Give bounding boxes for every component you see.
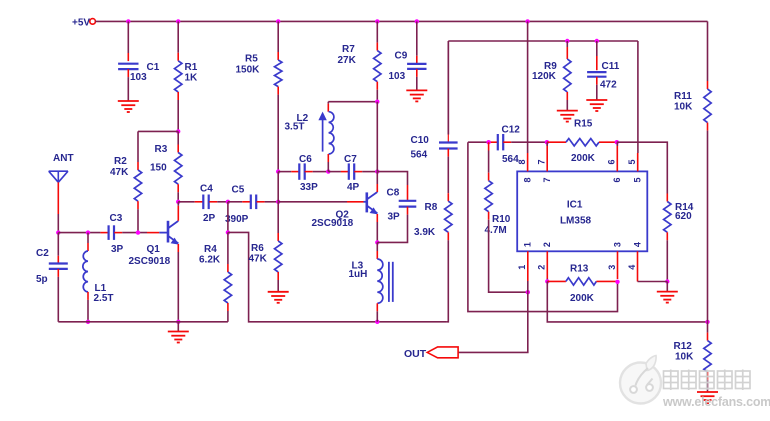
- svg-text:103: 103: [389, 71, 406, 82]
- wire divider node to R12: [707, 322, 709, 333]
- resistor R8: [445, 201, 452, 232]
- pin 2 stub: [546, 251, 548, 278]
- svg-text:620: 620: [675, 211, 692, 222]
- wire R9 to ground: [566, 92, 568, 100]
- svg-text:6: 6: [612, 177, 622, 182]
- svg-text:R11: R11: [674, 91, 692, 102]
- wire R5 to C6 row: [277, 87, 279, 95]
- svg-text:OUT: OUT: [404, 348, 427, 360]
- resistor R1: [175, 61, 182, 92]
- junction node B1 (R1/R2/R3): [176, 129, 180, 133]
- wire L2 bottom lead: [327, 154, 329, 162]
- svg-text:R4: R4: [204, 244, 217, 255]
- junction bias rail at R9: [565, 39, 569, 43]
- wire C7 to Q2 collector node: [354, 171, 362, 173]
- svg-text:3P: 3P: [111, 244, 124, 255]
- svg-text:LM358: LM358: [560, 216, 592, 227]
- junction base row at L1: [86, 230, 90, 234]
- resistor R11: [704, 89, 711, 123]
- wire R11 to divider node: [707, 123, 709, 131]
- wire pin 6 node to R14: [617, 142, 668, 193]
- junction Q2 emitter node: [375, 240, 379, 244]
- ground under R6: [268, 291, 289, 293]
- resistor R9: [564, 59, 571, 92]
- junction pin 2 node: [545, 279, 549, 283]
- junction R10 top: [486, 140, 490, 144]
- svg-text:ANT: ANT: [53, 153, 74, 164]
- junction R4 top: [226, 230, 230, 234]
- resistor R7: [374, 51, 381, 82]
- svg-text:2: 2: [542, 242, 552, 247]
- junction R5/R6 column at collector row: [276, 200, 280, 204]
- capacitor C9: [407, 63, 426, 65]
- capacitor C6: [298, 163, 300, 179]
- svg-text:150K: 150K: [236, 65, 261, 76]
- junction input node: [56, 230, 60, 234]
- wire C1 to ground: [127, 69, 129, 77]
- wire bias rail: [448, 40, 638, 42]
- junction R5 column at C6 row: [276, 169, 280, 173]
- power terminal +5V: [90, 19, 96, 25]
- junction base row at R2: [136, 230, 140, 234]
- wire R6 to ground: [277, 272, 279, 280]
- svg-text:150: 150: [150, 163, 167, 174]
- wire R10 from top node: [488, 142, 490, 150]
- junction bias rail at C11: [595, 39, 599, 43]
- resistor R6: [275, 241, 282, 272]
- svg-text:33P: 33P: [300, 182, 318, 193]
- svg-text:+5V: +5V: [72, 17, 90, 28]
- capacitor C1: [118, 63, 138, 65]
- wire R8 to right rail: [447, 232, 449, 240]
- svg-text:3: 3: [612, 242, 622, 247]
- ground under C11: [586, 99, 607, 101]
- svg-text:103: 103: [130, 72, 147, 83]
- wire R5 column C6 row to collector row: [277, 172, 279, 202]
- svg-text:R13: R13: [570, 264, 589, 275]
- port OUT arrow: [427, 347, 458, 358]
- svg-text:C7: C7: [344, 154, 357, 165]
- resistor R13: [566, 278, 597, 285]
- antenna ANT: [49, 170, 68, 172]
- wire +5V to R1: [177, 21, 179, 52]
- resistor R10: [485, 181, 492, 212]
- svg-text:2SC9018: 2SC9018: [129, 256, 171, 267]
- pin 8 stub: [527, 153, 529, 171]
- wire C10 to R8: [447, 149, 449, 157]
- resistor R3: [175, 153, 182, 185]
- ground under C9: [406, 89, 427, 91]
- wire R15 to pin 6 node: [599, 141, 617, 143]
- svg-text:564: 564: [411, 150, 428, 161]
- wire emitter node to L3: [376, 242, 378, 251]
- svg-text:C6: C6: [299, 154, 312, 165]
- wire bias rail to R9: [566, 41, 568, 47]
- junction top rail at C9: [415, 19, 419, 23]
- svg-text:R3: R3: [155, 144, 168, 155]
- junction top rail at IC pin 8 wire: [525, 19, 529, 23]
- watermark logo circle: [620, 356, 661, 404]
- junction pin 1 node: [526, 290, 530, 294]
- transistor Q2: [364, 201, 367, 203]
- wire pin 7 connection: [546, 142, 548, 146]
- wire +5V to R5: [277, 21, 279, 52]
- junction Q1 collector node: [176, 200, 180, 204]
- svg-text:5p: 5p: [36, 274, 48, 285]
- svg-text:C10: C10: [411, 135, 430, 146]
- wire Q1 emitter to ground rail: [177, 244, 179, 252]
- svg-text:R10: R10: [492, 214, 511, 225]
- wire R10 to pin 1 node: [488, 212, 490, 220]
- svg-text:120K: 120K: [532, 71, 557, 82]
- resistor R4: [227, 232, 229, 264]
- wire input node to C3: [58, 232, 100, 234]
- wire L1 to ground rail: [87, 292, 89, 300]
- svg-text:R12: R12: [674, 341, 693, 352]
- wire node R4 down: [227, 202, 229, 233]
- wire R2 to base row: [137, 201, 139, 209]
- svg-text:472: 472: [600, 80, 617, 91]
- junction R14 ground node: [665, 279, 669, 283]
- capacitor C5: [250, 195, 252, 210]
- svg-text:5: 5: [627, 159, 637, 164]
- junction top rail at R7: [375, 19, 379, 23]
- wire node B1 to R3: [177, 131, 179, 144]
- svg-text:C4: C4: [200, 183, 213, 194]
- svg-text:10K: 10K: [675, 351, 694, 362]
- junction ground rail at Q1 emitter: [176, 320, 180, 324]
- wire C6 row from R5 column: [278, 171, 291, 173]
- op-amp IC1 LM358: [517, 171, 647, 251]
- wire pin 6 connection: [616, 142, 618, 146]
- svg-text:R7: R7: [342, 44, 355, 55]
- svg-text:C2: C2: [36, 248, 49, 259]
- capacitor C7: [348, 163, 350, 179]
- resistor R5: [275, 60, 282, 87]
- svg-text:47K: 47K: [249, 253, 268, 264]
- capacitor C10: [439, 141, 458, 143]
- capacitor C12: [497, 134, 499, 150]
- svg-text:2P: 2P: [203, 213, 216, 224]
- junction pin 3 node: [615, 280, 619, 284]
- junction ground rail at L1: [86, 320, 90, 324]
- wire Q2 emitter: [376, 214, 378, 222]
- wire R12 to ground: [707, 372, 709, 380]
- svg-text:10K: 10K: [674, 101, 693, 112]
- inductor L1: [83, 251, 88, 292]
- wire L3 to right rail: [376, 303, 378, 311]
- svg-text:IC1: IC1: [567, 200, 583, 211]
- wire pin 1 to node: [527, 281, 529, 292]
- wire node R4 to C5: [228, 201, 242, 203]
- pin 6 stub: [616, 144, 618, 171]
- wire input node to C2: [57, 233, 59, 256]
- capacitor C11: [587, 71, 606, 73]
- junction top rail at C1: [126, 19, 130, 23]
- wire Q2 collector: [376, 172, 378, 184]
- junction pin 7 node: [545, 140, 549, 144]
- pin 4 stub: [637, 251, 639, 281]
- wire C6 to L2 bottom: [305, 171, 313, 173]
- svg-text:C8: C8: [387, 188, 400, 199]
- wire pin 2 node to feedback rail: [547, 281, 707, 322]
- resistor R15: [566, 139, 599, 146]
- svg-text:R8: R8: [425, 202, 438, 213]
- wire L2 top: [328, 101, 377, 103]
- svg-text:C5: C5: [232, 185, 245, 196]
- ground under R9: [557, 110, 578, 112]
- svg-text:8: 8: [522, 177, 532, 182]
- capacitor C8: [399, 200, 417, 202]
- wire C9 to ground: [416, 69, 418, 77]
- svg-text:3: 3: [607, 265, 617, 270]
- capacitor C2: [49, 262, 68, 264]
- svg-text:www.elecfans.com: www.elecfans.com: [662, 395, 770, 409]
- wire collector row to Q2 base: [278, 201, 347, 203]
- wire R4 to bottom-left rail: [227, 303, 229, 311]
- ground under R12: [697, 391, 718, 393]
- svg-text:R15: R15: [574, 119, 593, 130]
- pin 7 stub: [546, 144, 548, 171]
- svg-text:C1: C1: [147, 62, 160, 73]
- ground under R14: [666, 282, 668, 292]
- resistor R12: [704, 341, 711, 372]
- wire pin 7 node to R15: [547, 141, 566, 143]
- resistor R14: [664, 202, 671, 233]
- svg-text:2.5T: 2.5T: [94, 293, 114, 304]
- svg-text:4: 4: [632, 242, 642, 247]
- svg-text:R1: R1: [185, 62, 198, 73]
- pin 5 stub: [637, 153, 639, 171]
- svg-text:C11: C11: [602, 61, 620, 72]
- wire C8 to emitter node: [407, 207, 409, 215]
- wire Q2 collector node to C8: [377, 172, 407, 185]
- svg-text:R2: R2: [114, 156, 127, 167]
- svg-text:4P: 4P: [347, 182, 360, 193]
- svg-text:C9: C9: [395, 50, 408, 61]
- svg-text:3.9K: 3.9K: [414, 227, 436, 238]
- junction Q2 collector node: [375, 169, 379, 173]
- wire pin 2 node to R13: [547, 280, 566, 282]
- wire pin 4 to ground node: [638, 281, 668, 283]
- wire pin 2 down: [546, 279, 548, 282]
- wire +5V to C1: [127, 21, 129, 53]
- svg-text:Q1: Q1: [147, 244, 161, 255]
- wire L2 bottom to C7: [328, 171, 341, 173]
- svg-text:6: 6: [607, 159, 617, 164]
- wire pin3 net to C12: [468, 141, 490, 143]
- ground at bottom rail: [177, 322, 179, 332]
- wire +5V to C9: [416, 21, 418, 55]
- wire +5V rail to pin 8: [527, 21, 529, 153]
- wire C4 to node R4: [209, 201, 217, 203]
- watermark chinese text: [664, 370, 751, 391]
- svg-text:3P: 3P: [388, 212, 401, 223]
- svg-text:1K: 1K: [185, 73, 199, 84]
- wire +5V top rail: [95, 20, 707, 22]
- wire Q1 collector node to C4: [178, 201, 195, 203]
- pin 1 stub: [527, 251, 529, 281]
- svg-text:27K: 27K: [338, 55, 357, 66]
- inductor L3: [377, 259, 383, 303]
- wire C11 to ground: [596, 77, 598, 85]
- svg-text:R5: R5: [245, 54, 258, 65]
- junction node R4 top row: [226, 200, 230, 204]
- wire R7 node down to Q2 collector node: [376, 102, 378, 172]
- wire C12 to pin 7 node: [503, 141, 511, 143]
- junction top rail at R1: [176, 19, 180, 23]
- wire C3 to Q1 base: [114, 232, 122, 234]
- svg-text:C3: C3: [110, 213, 123, 224]
- wire R13 to pin 3 node: [596, 280, 617, 282]
- wire R3 to Q1 collector node: [177, 184, 179, 192]
- junction R7/L2 node: [375, 100, 379, 104]
- svg-text:7: 7: [542, 177, 552, 182]
- junction top rail at R5: [276, 19, 280, 23]
- wire bias rail corner to pin 5: [637, 41, 639, 153]
- wire ANT to input node: [57, 182, 59, 214]
- svg-text:C12: C12: [502, 124, 521, 135]
- wire pin 1 node to OUT: [458, 292, 528, 352]
- wire R1 to node B1: [177, 92, 179, 100]
- wire C5 to R5/R6 column: [257, 201, 265, 203]
- svg-text:1: 1: [517, 265, 527, 270]
- junction L2 bottom: [326, 169, 330, 173]
- wire collector row to R6: [277, 202, 279, 233]
- transistor Q1: [159, 232, 168, 234]
- svg-text:4: 4: [627, 265, 637, 270]
- svg-text:2: 2: [537, 265, 547, 270]
- svg-text:2SC9018: 2SC9018: [312, 218, 354, 229]
- capacitor C3: [107, 225, 109, 240]
- svg-text:5: 5: [633, 177, 643, 182]
- svg-text:200K: 200K: [570, 293, 595, 304]
- svg-text:6.2K: 6.2K: [199, 254, 221, 265]
- pin 3 stub: [617, 251, 619, 279]
- wire Q1 collector: [177, 202, 179, 206]
- junction right rail at L3: [375, 320, 379, 324]
- wire pin3 net vertical: [468, 142, 618, 311]
- wire C2 to ground rail: [57, 269, 59, 277]
- wire R7 to L2 node: [376, 82, 378, 90]
- wire node B1 to R2: [138, 130, 178, 132]
- wire jog from R4 top to right rail: [228, 232, 447, 321]
- svg-text:7: 7: [537, 159, 547, 164]
- wire +5V rail to R11: [707, 21, 709, 81]
- capacitor C4: [202, 195, 204, 210]
- svg-text:3.5T: 3.5T: [285, 121, 305, 132]
- svg-text:R6: R6: [251, 243, 264, 254]
- svg-text:1uH: 1uH: [349, 269, 368, 280]
- svg-text:1: 1: [523, 242, 533, 247]
- inductor L2 (adjustable): [329, 112, 334, 154]
- ground under C1: [118, 100, 139, 102]
- wire bias rail to C11: [596, 41, 598, 56]
- wire base row to L1: [87, 233, 89, 243]
- svg-text:47K: 47K: [110, 167, 129, 178]
- wire bottom-left rail: [58, 321, 228, 323]
- wire R14 to ground node: [666, 232, 668, 240]
- svg-text:564: 564: [502, 154, 519, 165]
- junction pin 6 node: [615, 140, 619, 144]
- junction R11/R12 node: [705, 320, 709, 324]
- wire bias rail to C10: [447, 41, 449, 135]
- wire +5V to R7: [376, 21, 378, 42]
- svg-text:200K: 200K: [571, 153, 596, 164]
- resistor R2: [134, 170, 141, 201]
